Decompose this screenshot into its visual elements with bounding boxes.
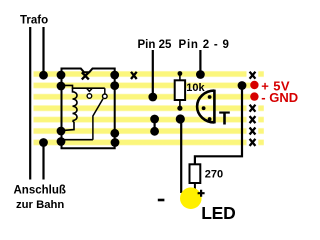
jumper dot strip 5	[150, 115, 159, 124]
wire relay coil return	[62, 121, 75, 131]
resistor R2 bottom lead	[194, 183, 196, 190]
svg-text:zur Bahn: zur Bahn	[16, 199, 64, 211]
node track feed on strip 7	[39, 138, 48, 147]
wire drop to contact B	[104, 88, 106, 93]
relay pin dot left strip 6	[57, 127, 66, 136]
wire lever to strip 7 pin	[61, 139, 93, 141]
copper strip row 5	[34, 116, 247, 123]
relay pin dot right strip 7	[111, 138, 120, 147]
transistor pin dot emitter	[208, 95, 212, 99]
relay pin dot left strip 1	[57, 71, 66, 80]
LED D1 body	[180, 187, 202, 209]
copper strip row 5 continuation after cut	[258, 116, 264, 123]
transistor pin dot collector	[208, 117, 212, 121]
relay coil L1	[73, 88, 78, 120]
svg-text:- GND: - GND	[261, 90, 298, 105]
svg-text:LED: LED	[201, 203, 235, 223]
svg-text:Anschluß: Anschluß	[14, 185, 66, 197]
cut mark x right column strip 1	[250, 72, 256, 79]
relay pin dot right strip 2	[110, 81, 119, 90]
resistor R1 top lead	[179, 74, 181, 81]
wire to track	[42, 143, 44, 180]
resistor R1 bottom pad	[177, 106, 182, 111]
wire strip2 to resistor 270	[195, 86, 242, 165]
transistor pin dot base	[202, 106, 206, 110]
LED minus sign	[158, 199, 165, 202]
cut mark x right column strip 5	[250, 116, 256, 123]
svg-text:Pin 25: Pin 25	[138, 39, 172, 51]
wire strip5 to LED cathode	[180, 119, 182, 193]
node LED feed on strip 5	[176, 114, 185, 123]
svg-text:Pin 2 - 9: Pin 2 - 9	[179, 39, 230, 51]
svg-text:T: T	[219, 109, 230, 129]
relay pin dot left strip 7	[57, 137, 66, 146]
arrow to contact A	[87, 88, 93, 91]
node Trafo lead 2 on strip 1	[39, 71, 48, 80]
copper strip row 4	[34, 105, 247, 112]
cut mark x right column strip 4	[250, 105, 256, 112]
resistor R1 body 10k	[175, 80, 185, 100]
copper strip row 1	[34, 71, 247, 78]
node +5V red dot strip 2	[250, 81, 258, 89]
copper strip row 4 continuation after cut	[258, 105, 264, 112]
copper strip row 3	[34, 94, 251, 101]
node GND red dot strip 3	[250, 92, 258, 100]
svg-text:270: 270	[205, 168, 223, 180]
resistor R1 bottom lead	[179, 100, 181, 107]
wire Trafo lead 1 (long, to track)	[29, 27, 31, 180]
contact terminal A	[87, 94, 92, 99]
copper strip row 6 continuation after cut	[258, 128, 264, 135]
node Pin 2 - 9 on strip 1	[196, 70, 205, 79]
relay pin dot left strip 2	[57, 82, 66, 91]
copper strip row 2	[34, 82, 251, 89]
cut mark x right column strip 6	[250, 128, 256, 135]
resistor R1 top pad	[178, 71, 183, 76]
transistor T1 body	[197, 90, 214, 124]
node supply on strip 2	[238, 81, 247, 90]
cut mark x on strip 1	[131, 72, 137, 79]
svg-text:10k: 10k	[186, 82, 205, 94]
copper strip row 7 continuation after cut	[258, 139, 264, 146]
wire relay coil feed / contact rail	[61, 85, 105, 88]
wire Pin 25	[152, 50, 154, 97]
LED plus sign	[198, 190, 205, 197]
wire Pin 2 - 9	[199, 50, 201, 75]
copper strip row 6	[34, 128, 247, 135]
relay pin dot right strip 6	[110, 129, 119, 138]
relay pin dot right strip 1	[110, 71, 119, 80]
wire Trafo lead 2	[42, 27, 44, 75]
resistor R2 body 270	[190, 164, 201, 183]
contact terminal B	[103, 94, 108, 99]
wire jumper strip5-strip6	[154, 119, 156, 131]
jumper dot strip 6	[150, 127, 159, 136]
copper strip row 1 continuation after cut	[258, 71, 264, 78]
copper strip row 7	[34, 139, 247, 146]
switch lever	[93, 99, 103, 140]
relay K1 outline with top notch	[62, 69, 115, 149]
svg-text:Trafo: Trafo	[20, 15, 48, 27]
cut mark X inside relay top	[82, 72, 89, 79]
cut mark x right column strip 7	[250, 139, 256, 146]
node Pin 25 on strip 3	[148, 93, 157, 102]
